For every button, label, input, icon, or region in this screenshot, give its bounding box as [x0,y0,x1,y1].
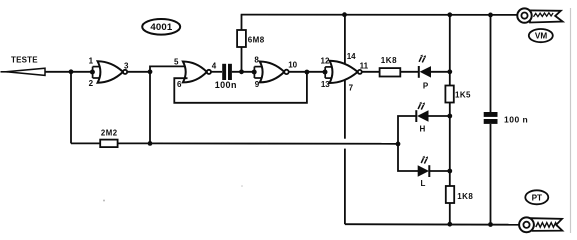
wire 2M2 to junction [118,142,150,144]
wire cap to gate3 input [232,71,255,73]
wire gate3 out to gate4 input [289,71,325,73]
LED P [419,55,431,91]
wire pin14 pin7 power line [344,15,346,139]
scan speck [241,185,243,187]
LED L [418,156,430,188]
node column top rail [447,12,452,17]
label PT oval [525,190,548,204]
node gate4 input [323,70,328,75]
scan speck [103,200,105,202]
wire 1K8 to LED P [400,71,419,73]
clip terminal VM [517,8,562,22]
svg-text:VM: VM [535,32,547,41]
node decoupling top [488,13,493,18]
label VM oval [529,29,553,42]
clip terminal PT [519,217,562,232]
svg-text:10: 10 [288,61,297,70]
scan border right edge [570,8,572,233]
svg-text:14: 14 [347,52,356,61]
NOR gate U1a (4001) pins 1,2 output 3 [98,61,128,82]
svg-text:7: 7 [349,84,354,93]
svg-text:100 n: 100 n [504,115,528,125]
wire junction up-jog to pin5 [150,66,186,71]
svg-text:1: 1 [89,57,94,66]
wire gate2 out to cap [211,71,222,73]
svg-text:100n: 100n [215,80,237,90]
wire bottom supply rail [345,223,521,226]
node gate1 output [148,69,153,74]
label 4001 oval [142,19,180,35]
wire top supply rail [241,14,518,16]
wire probe junction down [70,72,72,144]
wire LED H to column [429,115,450,117]
node LED pair left junction [396,142,401,147]
resistor 1K5 [445,86,471,103]
NOR gate U1d (4001) pins 12,13 output 11 [330,61,362,83]
svg-text:4: 4 [212,61,217,70]
wire to resistor 2M2 [71,142,100,144]
node 2M2 junction [148,141,153,146]
wire gate4 out to 1K8 [362,71,380,73]
svg-text:11: 11 [360,62,369,71]
wire gate1 out to junction [127,71,150,73]
svg-text:6: 6 [177,80,182,89]
svg-text:1K8: 1K8 [381,56,397,65]
node gate3 output [305,70,310,75]
wire decoupling column [490,15,492,112]
svg-text:4001: 4001 [150,22,173,33]
wire LED L to column [429,170,450,172]
svg-text:13: 13 [321,80,330,89]
NOR gate U1c (4001) pins 8,9 output 10 [260,62,289,83]
svg-text:2M2: 2M2 [101,129,118,138]
resistor 1K8 series LED P [380,56,401,76]
svg-text:2: 2 [89,79,94,88]
wire 1K5 to H node [449,103,451,172]
wire L node to 1K8 to bottom rail [449,171,451,186]
svg-text:12: 12 [321,57,330,66]
gate4 input tie bracket [325,67,332,78]
svg-text:3: 3 [124,62,129,71]
gate1 input tie bracket [93,67,101,78]
resistor 1K8 bottom [446,186,474,203]
node 6M8 junction [239,69,244,74]
probe tip [1,68,46,75]
node 1K8 bottom rail [447,222,452,227]
wire column top rail to P node [449,15,451,86]
node H row [447,114,452,119]
wire feedback loop to pin6 [174,72,307,103]
svg-text:PT: PT [532,193,542,202]
resistor 6M8 [237,15,265,72]
capacitor 100n supply [484,112,529,125]
svg-text:P: P [423,82,429,91]
node probe junction [69,69,74,74]
node LED P cathode column [447,69,452,74]
wire H branch [398,116,416,144]
wire junction down to 2M2 row [149,72,151,144]
node pin14 top rail [342,12,347,17]
wire junction to LED pair (crosses pin7 line with gap) [150,142,398,144]
svg-text:H: H [420,125,426,134]
svg-text:8: 8 [254,56,259,65]
node L row [447,169,452,174]
svg-text:9: 9 [255,80,260,89]
LED H [416,102,428,134]
svg-text:5: 5 [174,57,179,66]
node gate1 input [90,70,95,75]
svg-text:1K8: 1K8 [457,192,473,201]
NOR gate U1b (4001) pins 5,6 output 4 [183,62,211,83]
node gate3 input [252,70,257,75]
wire L branch [398,144,418,171]
svg-text:L: L [421,179,426,188]
svg-text:1K5: 1K5 [455,90,471,99]
svg-text:TESTE: TESTE [11,56,38,65]
node decoupling bottom [488,222,493,227]
capacitor 100n coupling [215,64,237,90]
gate3 input tie bracket [254,67,262,78]
svg-text:6M8: 6M8 [248,36,265,45]
wire probe to gate1 input [45,71,93,73]
resistor 2M2 [100,129,117,148]
wire LED P to node [431,71,450,73]
